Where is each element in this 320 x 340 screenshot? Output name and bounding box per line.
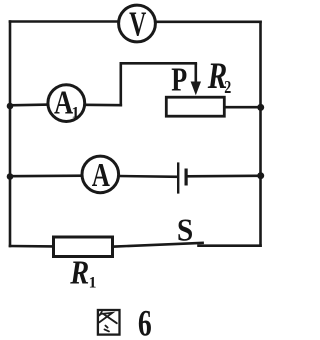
wire top left segment	[10, 20, 118, 23]
ammeter A	[82, 156, 119, 194]
rheostat wiper arrow	[191, 63, 201, 95]
svg-text:1: 1	[89, 274, 97, 291]
wire R2 to right rail	[226, 106, 261, 109]
wire bottom right segment	[199, 244, 261, 247]
svg-text:V: V	[129, 6, 147, 43]
svg-text:1: 1	[72, 105, 80, 122]
svg-text:A: A	[92, 158, 111, 194]
wire wiper horizontal	[121, 62, 196, 65]
svg-text:A: A	[54, 83, 73, 121]
node right battery row	[257, 172, 264, 179]
wire A row left	[10, 174, 82, 177]
wire left rail	[9, 22, 12, 247]
node left A row	[7, 173, 14, 180]
wire battery to right rail	[187, 175, 260, 178]
wire top right segment	[156, 20, 260, 23]
wire A1 row left	[10, 103, 48, 106]
svg-text:2: 2	[224, 78, 231, 97]
wire A1 row right to riser	[84, 104, 121, 107]
svg-text:P: P	[171, 61, 187, 98]
wire riser to wiper level	[120, 63, 123, 105]
ammeter A1	[48, 83, 85, 121]
wire bottom left segment	[10, 245, 53, 248]
caption glyph 图	[98, 310, 120, 335]
wire right rail	[259, 22, 262, 246]
node left A1 row	[7, 103, 14, 110]
node right R2 row	[257, 104, 264, 111]
label R2	[207, 56, 231, 97]
svg-text:R: R	[69, 253, 89, 291]
resistor R1 body	[54, 237, 113, 257]
voltmeter V	[119, 5, 156, 43]
wire bottom switch knife	[114, 243, 203, 247]
rheostat R2 body	[166, 97, 224, 116]
label R1	[69, 253, 96, 291]
wire A row circle to battery	[119, 175, 178, 178]
svg-text:S: S	[177, 212, 193, 247]
svg-text:6: 6	[138, 304, 152, 340]
battery cell	[178, 162, 186, 193]
